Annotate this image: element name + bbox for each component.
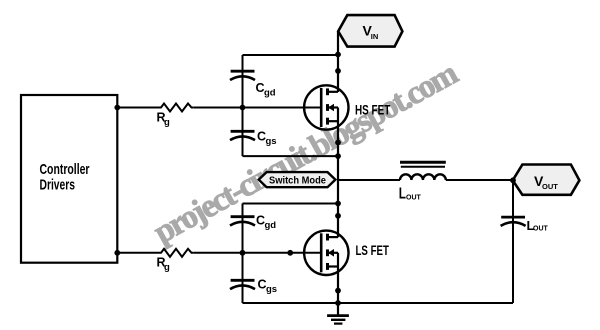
wire: LS gate wire from box to resistor <box>117 252 158 254</box>
node: VIN tee junction <box>335 52 341 58</box>
svg-text:Switch Mode: Switch Mode <box>269 176 326 187</box>
controller box U1 <box>21 95 117 263</box>
wire: HS cap loop branch vertical <box>242 55 244 156</box>
label Cgd (low side) <box>256 214 276 232</box>
node: LS loop top tee <box>335 201 341 207</box>
node: LS gate / cap branch junction <box>240 250 246 256</box>
node: HS gate / cap branch junction <box>240 105 246 111</box>
node: box bottom output junction <box>114 250 120 256</box>
node: LS drain junction <box>335 213 341 219</box>
svg-text:OUT: OUT <box>533 225 549 232</box>
node: VOUT tee junction <box>510 177 516 183</box>
capacitor Cout <box>501 217 526 226</box>
wire: main vertical HS source to LS drain <box>337 108 339 238</box>
label Cgs (low side) <box>258 278 278 296</box>
svg-text:Controller: Controller <box>40 161 90 178</box>
flag VIN <box>338 15 402 46</box>
node: box top output junction <box>114 105 120 111</box>
svg-text:gs: gs <box>266 284 277 295</box>
wire: HS gate wire from box to resistor <box>117 107 158 109</box>
transistor Q2 LS FET <box>304 231 348 275</box>
label Lout (output capacitor) <box>527 218 549 233</box>
label Rg (low side) <box>157 256 171 274</box>
node: HS drain junction <box>335 68 341 74</box>
node: ground tee junction <box>335 300 341 306</box>
label Lout (inductor) <box>399 186 422 203</box>
label VIN <box>363 23 379 41</box>
wire: HS gate wire from resistor to FET gate <box>193 107 321 109</box>
wire: main vertical LS source to ground <box>337 253 339 303</box>
label Rg (high side) <box>157 110 171 128</box>
inductor Lout <box>400 162 446 180</box>
svg-text:LS FET: LS FET <box>356 242 390 258</box>
wire: ground bus <box>243 302 514 304</box>
controller box label <box>40 161 90 194</box>
node: HS loop bottom tee <box>335 153 341 159</box>
capacitor Cgs (high side) <box>230 131 255 140</box>
svg-text:gd: gd <box>265 220 277 231</box>
wire: output branch vertical <box>512 180 514 303</box>
capacitor Cgd (low side) <box>230 217 255 226</box>
wire: inductor to VOUT node <box>446 179 513 181</box>
wire: switch node to inductor <box>338 179 400 181</box>
wire: LS cap loop branch vertical <box>242 204 244 304</box>
wire: HS cap loop top <box>243 54 339 56</box>
capacitor Cgd (high side) <box>230 71 255 80</box>
svg-text:Drivers: Drivers <box>40 177 76 194</box>
node Switch Mode flag <box>259 172 336 187</box>
transistor Q1 HS FET <box>304 85 348 129</box>
flag VOUT <box>513 165 580 195</box>
capacitor Cgs (low side) <box>230 280 255 289</box>
node: HS source junction <box>335 140 341 146</box>
svg-text:OUT: OUT <box>406 195 422 202</box>
svg-text:gs: gs <box>266 136 277 147</box>
wire: main vertical VIN to HS drain <box>337 31 339 92</box>
wire: LS gate wire from resistor to FET gate <box>193 252 321 254</box>
wire: LS cap loop top <box>243 203 339 205</box>
svg-text:OUT: OUT <box>542 182 558 191</box>
node: LS source junction <box>335 288 341 294</box>
label VOUT <box>534 173 558 191</box>
svg-text:IN: IN <box>371 32 379 41</box>
ground <box>327 303 349 324</box>
resistor Rg (low side) <box>158 249 193 257</box>
resistor Rg (high side) <box>158 104 193 112</box>
node: LS gate wire junction <box>287 250 293 256</box>
wire: HS cap loop bottom <box>243 155 339 157</box>
svg-text:gd: gd <box>264 88 276 99</box>
svg-text:g: g <box>164 117 170 128</box>
label Cgd (high side) <box>256 81 276 99</box>
svg-text:g: g <box>164 262 170 273</box>
label Cgs (high side) <box>257 129 277 147</box>
svg-text:HS FET: HS FET <box>355 102 391 118</box>
